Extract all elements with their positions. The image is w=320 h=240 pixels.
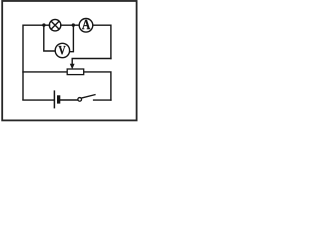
wire top-left from corner to lamp bbox=[23, 25, 50, 99]
wire voltmeter right branch bbox=[69, 25, 73, 52]
ammeter A bbox=[79, 19, 93, 33]
wire lamp to ammeter bbox=[61, 24, 80, 26]
wire track right to corner down bbox=[84, 72, 111, 100]
switch contact circle bbox=[78, 98, 82, 102]
wire wiper row bbox=[72, 59, 111, 65]
node junction dot left bbox=[42, 23, 45, 26]
rheostat wiper arrowhead bbox=[70, 64, 75, 70]
wire battery to switch bbox=[60, 99, 78, 101]
battery thick plate bbox=[57, 95, 60, 103]
voltmeter V bbox=[55, 43, 69, 57]
switch lever bbox=[81, 95, 95, 99]
lamp L1 bbox=[49, 19, 61, 31]
wire ammeter right to corner bbox=[93, 25, 111, 58]
wire bottom right to switch bbox=[94, 99, 111, 101]
rheostat R1 box bbox=[67, 69, 84, 75]
battery long plate bbox=[53, 90, 55, 108]
wire bottom left to battery bbox=[23, 99, 54, 101]
node junction dot right bbox=[72, 23, 75, 26]
wire track left bbox=[23, 71, 67, 73]
wire voltmeter left branch bbox=[44, 25, 56, 51]
